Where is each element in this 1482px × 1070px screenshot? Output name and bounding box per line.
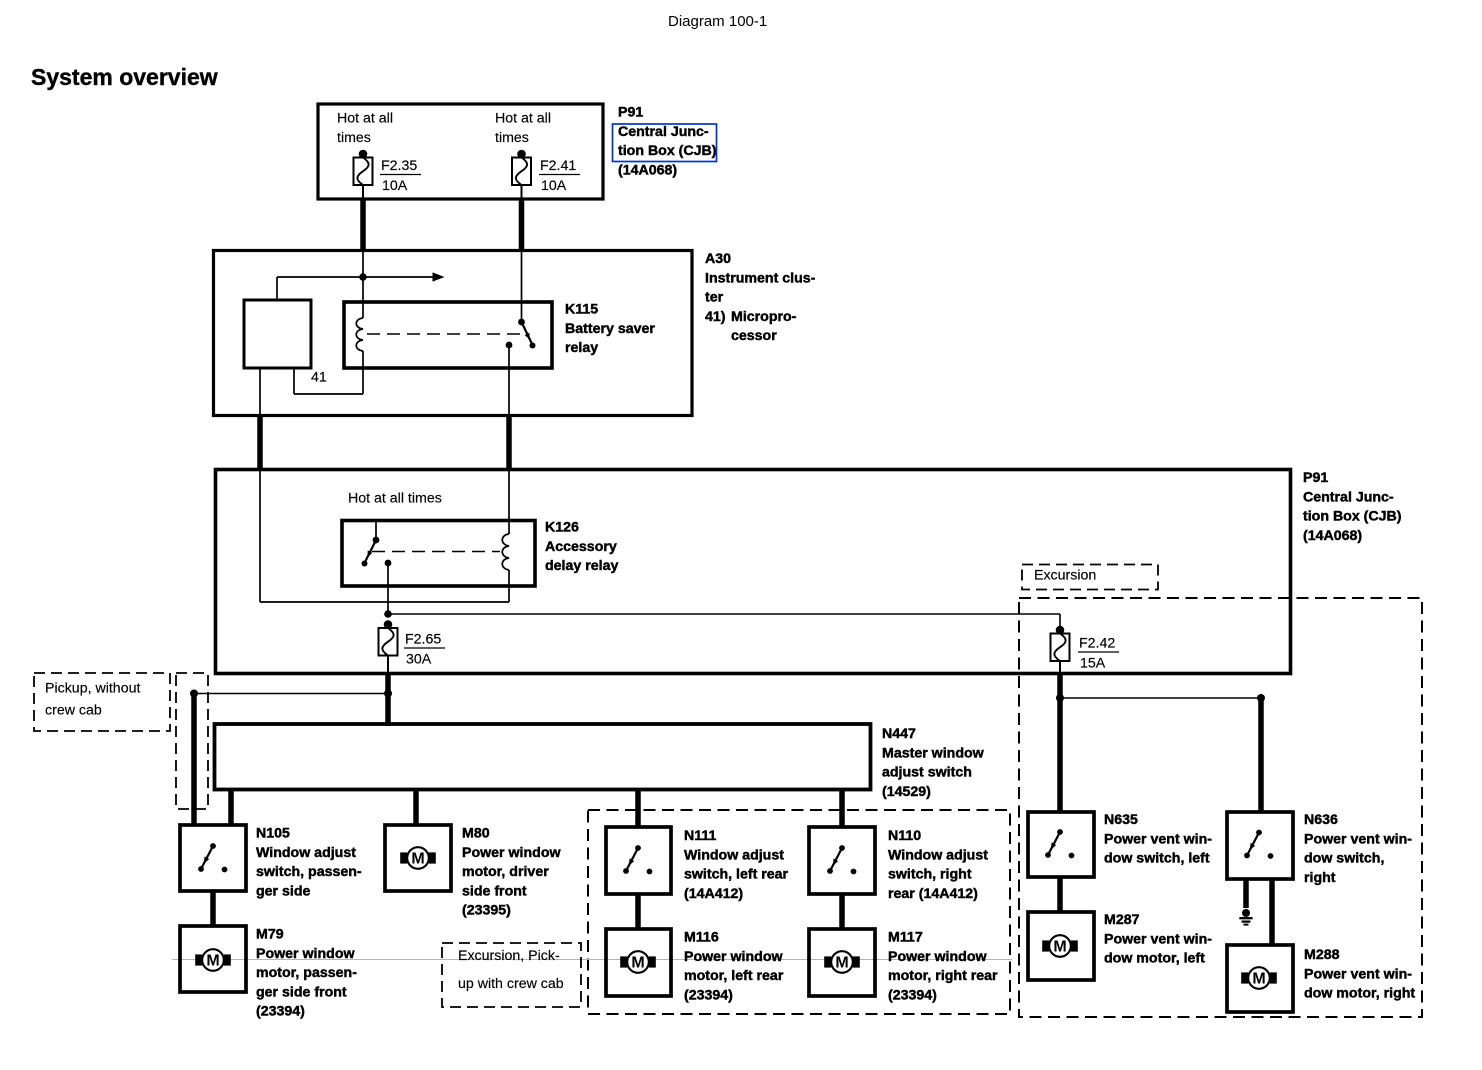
label N111 [684,828,789,902]
svg-text:Instrument clus-: Instrument clus- [705,270,816,286]
label fuse F2.65 30A [404,632,445,668]
svg-text:tion Box (CJB): tion Box (CJB) [618,143,717,159]
box P91 Central Junction Box (main) [216,470,1291,674]
box: top Central Junction Box P91 [318,104,603,199]
motor M288 box [1227,945,1293,1012]
box N447 master window adjust switch [215,724,871,790]
wire: N636 ground stub (thick) [1243,879,1249,908]
svg-text:41: 41 [311,370,327,386]
svg-text:times: times [337,130,371,146]
svg-text:Hot at all times: Hot at all times [348,491,442,507]
wire: F2.65 to N447 (thick) [385,672,391,726]
svg-text:M287: M287 [1104,912,1140,928]
svg-text:F2.65: F2.65 [405,632,441,648]
svg-text:ter: ter [705,290,724,306]
fuse F2.35 [354,150,373,185]
svg-text:rear (14A412): rear (14A412) [888,886,978,902]
label N447 master window adjust switch [882,726,985,800]
svg-text:N635: N635 [1104,812,1138,828]
node: N636 branch top [1257,694,1265,702]
wire: down to N636 (thick) [1258,698,1264,812]
svg-text:15A: 15A [1080,656,1106,672]
svg-text:K115: K115 [565,302,598,318]
label K126 accessory delay relay [545,520,618,575]
wire: A30 to P91 right (thick) [506,415,512,471]
svg-text:(14A068): (14A068) [1303,528,1362,544]
wire: N447 to N105 (thick) [228,789,234,825]
svg-text:Power vent win-: Power vent win- [1104,831,1212,847]
wire: F2.35 down to K115 coil [362,252,364,318]
svg-text:M288: M288 [1304,947,1340,963]
svg-text:right: right [1304,870,1336,886]
svg-text:delay relay: delay relay [545,558,618,574]
dashed box: Excursion group (right) [1019,598,1422,1017]
motor M79 box [180,926,246,992]
relay K126 box [342,521,535,587]
label M117 [888,930,998,1004]
wire: F2.41 to A30 (thick) [519,199,525,252]
motor M287 box [1028,912,1094,980]
svg-text:Pickup, without: Pickup, without [45,681,140,697]
relay K115 switch [506,252,536,415]
svg-text:Central Junc-: Central Junc- [1303,489,1394,505]
svg-text:F2.42: F2.42 [1079,636,1115,652]
wire: N111 to M116 (thick) [635,894,641,929]
switch N636 box [1227,812,1293,879]
svg-text:adjust switch: adjust switch [882,765,972,781]
svg-text:Power window: Power window [256,946,355,962]
switch N105 box [180,825,246,891]
label N110 [888,828,988,902]
svg-text:Central Junc-: Central Junc- [618,124,709,140]
svg-text:motor, right rear: motor, right rear [888,968,998,984]
svg-text:N110: N110 [888,828,921,844]
svg-text:Micropro-: Micropro- [731,309,797,325]
svg-text:switch, passen-: switch, passen- [256,864,362,880]
node: junction below K126 [384,610,392,618]
box A30 instrument cluster [214,251,693,416]
switch N110 box [809,827,875,894]
svg-text:(14A412): (14A412) [684,886,743,902]
relay K115 box [344,302,552,368]
svg-text:motor, driver: motor, driver [462,864,549,880]
label P91 Central Junction Box (right) [1303,470,1402,544]
wire: long link to F2.42 [388,614,1060,628]
label N636 [1304,812,1412,886]
svg-text:K126: K126 [545,520,579,536]
label M287 [1104,912,1212,967]
label Excursion Pickup with crew cab [458,948,564,992]
svg-text:Excursion: Excursion [1034,568,1096,584]
wire: K115 switch down to K126 coil [508,471,510,534]
label fuse F2.42 15A [1078,636,1119,672]
svg-text:Hot at all: Hot at all [495,111,551,127]
wire: N110 to M117 (thick) [839,894,845,929]
wire: below fuse F2.42 [1059,661,1061,672]
svg-text:dow switch, left: dow switch, left [1104,851,1210,867]
svg-text:10A: 10A [382,178,408,194]
label N105 [256,826,362,900]
svg-text:(14A068): (14A068) [618,162,677,178]
wire: N635 to M287 (thick) [1057,877,1063,912]
label P91 Central Junction Box (top right) [618,105,717,179]
svg-text:M116: M116 [684,930,719,946]
motor M80 box [385,825,451,891]
dashed box: tall pickup branch [176,673,208,809]
svg-text:Excursion, Pick-: Excursion, Pick- [458,948,560,964]
svg-text:relay: relay [565,340,598,356]
svg-text:Power window: Power window [462,845,561,861]
svg-text:cessor: cessor [731,328,777,344]
wire: micro box up and arrow right [277,272,445,300]
link highlight box (blue) [613,124,717,162]
svg-text:Hot at all: Hot at all [337,111,393,127]
svg-text:Power vent win-: Power vent win- [1304,966,1412,982]
svg-text:motor, passen-: motor, passen- [256,965,357,981]
microprocessor box 41 [244,300,311,368]
ground [1239,909,1252,925]
switch N111 box [606,827,671,894]
svg-text:switch, left rear: switch, left rear [684,867,789,883]
wire: link to N636 branch [1060,697,1261,699]
wire: link to pickup branch [194,693,388,695]
svg-text:Power window: Power window [684,949,783,965]
svg-text:dow motor, right: dow motor, right [1304,986,1415,1002]
svg-text:(23394): (23394) [684,987,733,1003]
wire: coil bottom to microprocessor (41) [294,351,363,394]
label fuse F2.35 10A [380,158,421,194]
relay K126 dashed link [372,551,500,553]
wire: N105 to M79 (thick) [210,891,216,926]
label N635 [1104,812,1212,867]
motor M116 box [606,929,671,996]
wire: below fuse F2.41 [521,185,523,199]
node: pickup branch top [190,690,198,698]
svg-text:System overview: System overview [31,64,218,90]
svg-text:tion Box (CJB): tion Box (CJB) [1303,509,1402,525]
svg-text:F2.41: F2.41 [540,158,576,174]
svg-text:times: times [495,130,529,146]
svg-text:(23395): (23395) [462,903,511,919]
svg-text:dow switch,: dow switch, [1304,851,1384,867]
svg-text:Power vent win-: Power vent win- [1304,831,1412,847]
svg-text:A30: A30 [705,251,731,267]
svg-text:(23394): (23394) [256,1004,305,1020]
node: junction on arrow line [359,273,367,281]
node: junction above N447 [384,690,392,698]
svg-text:Power window: Power window [888,949,987,965]
svg-text:P91: P91 [618,105,643,121]
node: junction right branch [1056,694,1064,702]
svg-text:switch, right: switch, right [888,867,972,883]
label A30 instrument cluster [705,251,816,344]
label Pickup without crew cab [45,681,140,719]
svg-text:Window adjust: Window adjust [888,847,988,863]
svg-text:N111: N111 [684,828,716,844]
svg-text:N105: N105 [256,826,290,842]
svg-text:side front: side front [462,883,527,899]
relay K115 dashed link [367,333,528,335]
wire: A30 to P91 left (thick) [257,415,263,471]
wire: P91 interior left loop [260,471,509,602]
svg-text:N447: N447 [882,726,916,742]
svg-text:crew cab: crew cab [45,703,102,719]
wire: N447 to N110 (thick) [839,789,845,827]
wire: K126 coil bottom [508,570,510,602]
wire: below fuse F2.65 [387,656,389,673]
svg-text:motor, left rear: motor, left rear [684,968,784,984]
svg-text:M80: M80 [462,826,490,842]
label fuse F2.41 10A [539,158,580,194]
artifact line [172,959,1012,961]
svg-text:Diagram 100-1: Diagram 100-1 [668,13,767,30]
svg-text:N636: N636 [1304,812,1338,828]
svg-text:Battery saver: Battery saver [565,321,655,337]
relay K126 switch [362,521,392,615]
relay K126 coil [502,534,509,570]
label M288 [1304,947,1415,1002]
svg-text:30A: 30A [406,652,432,668]
wire: micro box down [259,368,261,415]
label M80 [462,826,561,919]
svg-text:(14529): (14529) [882,784,931,800]
svg-text:M79: M79 [256,927,284,943]
svg-text:ger side: ger side [256,883,311,899]
svg-text:F2.35: F2.35 [381,158,417,174]
dashed box: Pickup without crew cab [34,673,170,731]
label: Hot at all times (right) [495,111,551,146]
svg-text:Window adjust: Window adjust [256,845,356,861]
wire: F2.42 down to N635 (thick) [1057,672,1063,812]
wire: N447 to M80 (thick) [413,789,419,825]
svg-text:M117: M117 [888,930,923,946]
wire: below fuse F2.35 [362,185,364,199]
svg-text:Accessory: Accessory [545,539,617,555]
wire: F2.35 to A30 (thick) [360,199,366,252]
wire: N636 to M288 (thick) [1269,879,1275,945]
label M79 [256,927,357,1020]
relay K115 coil [356,318,363,351]
label K115 battery saver relay [565,302,655,357]
dashed box: rear doors group [588,810,1010,1014]
dashed box: Excursion label [1022,565,1158,590]
svg-text:41): 41) [705,309,726,325]
fuse F2.41 [512,150,531,185]
svg-text:up with crew cab: up with crew cab [458,976,564,992]
label: Hot at all times (left) [337,111,393,146]
svg-text:P91: P91 [1303,470,1328,486]
svg-text:Master window: Master window [882,745,985,761]
svg-text:ger side front: ger side front [256,984,347,1000]
svg-text:dow motor, left: dow motor, left [1104,951,1205,967]
svg-text:(23394): (23394) [888,987,937,1003]
svg-text:10A: 10A [541,178,567,194]
svg-text:Power vent win-: Power vent win- [1104,931,1212,947]
switch N635 box [1028,812,1094,877]
fuse F2.42 [1051,626,1070,661]
svg-text:Window adjust: Window adjust [684,847,784,863]
wire: N447 to N111 (thick) [635,789,641,827]
dashed box: Excursion, Pickup with crew cab [442,943,581,1007]
wire: pickup branch down to N105 (thick) [191,694,197,826]
label M116 [684,930,784,1004]
fuse F2.65 [379,620,398,655]
motor M117 box [809,929,875,996]
